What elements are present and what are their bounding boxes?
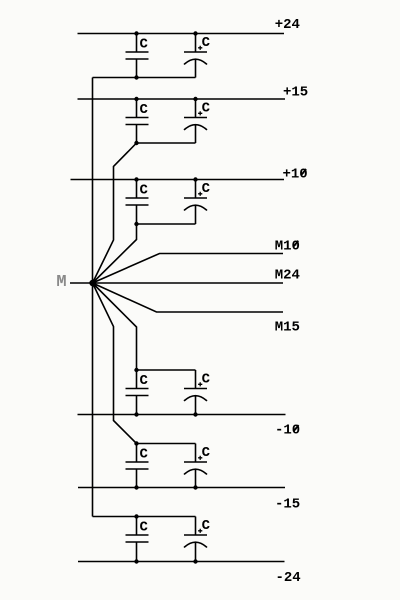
svg-text:C: C bbox=[140, 182, 149, 198]
svg-text:-24: -24 bbox=[276, 570, 301, 586]
svg-text:M10: M10 bbox=[275, 238, 300, 254]
svg-text:+15: +15 bbox=[283, 84, 308, 100]
svg-text:C: C bbox=[202, 445, 211, 461]
svg-text:C: C bbox=[202, 372, 211, 388]
svg-text:+24: +24 bbox=[275, 17, 300, 33]
svg-text:C: C bbox=[140, 102, 149, 118]
svg-text:-10: -10 bbox=[275, 423, 300, 439]
svg-text:C: C bbox=[202, 181, 211, 197]
svg-text:C: C bbox=[202, 518, 211, 534]
svg-text:C: C bbox=[202, 35, 211, 51]
svg-text:M15: M15 bbox=[275, 319, 300, 335]
svg-text:C: C bbox=[140, 373, 149, 389]
svg-text:C: C bbox=[140, 446, 149, 462]
svg-text:+10: +10 bbox=[283, 167, 308, 183]
svg-text:C: C bbox=[140, 519, 149, 535]
svg-text:M24: M24 bbox=[275, 267, 300, 283]
svg-text:C: C bbox=[202, 101, 211, 117]
svg-text:M: M bbox=[56, 273, 66, 292]
svg-text:-15: -15 bbox=[275, 497, 300, 513]
svg-text:C: C bbox=[140, 36, 149, 52]
